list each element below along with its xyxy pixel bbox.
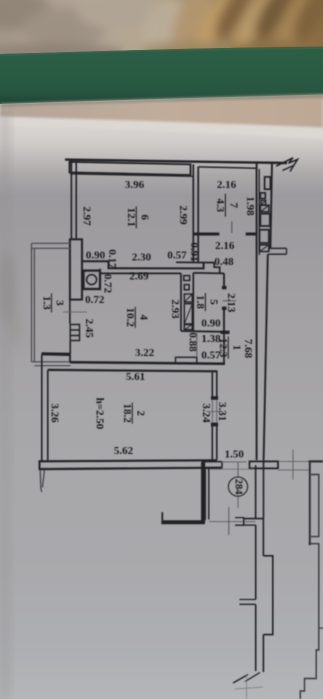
room label 5/1.8 xyxy=(194,293,219,311)
neighbour apartment outline right xyxy=(309,460,323,462)
room label 2/18.2 xyxy=(121,403,146,424)
svg-text:7: 7 xyxy=(227,202,239,208)
svg-text:2.93: 2.93 xyxy=(169,299,181,319)
wall room5 right with door xyxy=(223,273,225,331)
wall room4 left lower xyxy=(69,341,71,354)
wall room4-balcony xyxy=(69,300,71,324)
green band top highlight xyxy=(0,47,323,57)
balcony room3 outer walls xyxy=(32,244,35,363)
window balcony ladder xyxy=(70,324,79,341)
svg-text:2.99: 2.99 xyxy=(177,205,189,225)
axis cross right of entrance xyxy=(292,450,294,480)
svg-text:1.98: 1.98 xyxy=(244,196,256,216)
tick room5 door xyxy=(223,300,237,302)
svg-text:1: 1 xyxy=(230,345,242,351)
room label 1/12.3 xyxy=(217,337,242,359)
pier jut above room2 xyxy=(176,357,197,363)
shaft inner left line xyxy=(258,169,260,255)
vent rect A2 xyxy=(260,193,265,199)
vent square with circle room4 corner xyxy=(84,271,101,289)
wall room6 inner top face xyxy=(70,174,193,177)
svg-text:2.13: 2.13 xyxy=(225,293,237,313)
door jambs room5 xyxy=(222,286,227,289)
svg-text:0.90: 0.90 xyxy=(201,317,221,329)
pencil stub below room2 corner xyxy=(40,470,44,493)
tick through jut xyxy=(196,333,198,358)
wall corridor left lower xyxy=(255,525,257,671)
svg-text:5: 5 xyxy=(207,299,219,305)
svg-text:3.24: 3.24 xyxy=(200,403,212,423)
wall room2 bottom band xyxy=(40,460,218,461)
svg-text:0.72: 0.72 xyxy=(85,294,105,306)
wall shaft outer right xyxy=(270,163,272,249)
svg-text:12.3: 12.3 xyxy=(217,338,229,358)
dim extension line 2.45 xyxy=(63,311,87,313)
wall top exterior rooms 6-7 xyxy=(65,160,287,163)
stairwell door thin line and tick xyxy=(209,521,256,523)
wall room4 top xyxy=(100,272,181,274)
faint lines below break xyxy=(235,674,263,699)
svg-text:2.69: 2.69 xyxy=(129,270,149,282)
vent rect B2 xyxy=(184,285,189,290)
dim line 1.50 xyxy=(210,468,255,470)
svg-text:6: 6 xyxy=(138,215,150,221)
paper top edge highlight xyxy=(0,117,323,140)
wall corridor right leaning xyxy=(264,254,268,460)
top wall/table blurred tan area xyxy=(0,0,323,62)
wall stub right to stairwell xyxy=(268,248,287,254)
door jamb piece xyxy=(235,518,244,526)
vent rect B1 xyxy=(184,276,190,281)
left stub doorway in corridor xyxy=(239,600,255,605)
FLOOR PLAN xyxy=(32,158,323,699)
wall room7 bottom with door gap xyxy=(194,233,219,236)
wall corridor shoulder xyxy=(244,518,264,520)
wall room2 top face xyxy=(48,370,217,371)
svg-text:0.72: 0.72 xyxy=(101,274,113,294)
tan strip below green xyxy=(0,94,323,139)
svg-text:10.2: 10.2 xyxy=(124,308,136,328)
svg-text:5.61: 5.61 xyxy=(126,371,145,383)
room label 3/1.3 xyxy=(40,293,65,312)
vent rect A1 xyxy=(265,177,271,189)
svg-text:3.22: 3.22 xyxy=(135,347,155,359)
pencil smudge left margin xyxy=(0,252,22,350)
wall pier left below room6 xyxy=(70,239,82,299)
wall room2 right with door gap xyxy=(212,371,217,399)
svg-text:3: 3 xyxy=(54,300,66,306)
svg-text:18.2: 18.2 xyxy=(121,403,133,423)
wall corridor1 left upper xyxy=(223,332,225,364)
svg-text:4.3: 4.3 xyxy=(214,198,226,212)
svg-text:12.1: 12.1 xyxy=(125,208,137,227)
svg-text:0.91: 0.91 xyxy=(188,242,200,261)
svg-text:0.57: 0.57 xyxy=(167,250,187,262)
entrance door thin line and tick xyxy=(221,461,246,463)
vent rect B5 hatched xyxy=(184,325,192,330)
vent column between room4 and room5 xyxy=(181,273,193,331)
door jamb marks room2 xyxy=(211,396,218,400)
wall room5 top xyxy=(193,272,224,275)
svg-text:7.68: 7.68 xyxy=(242,339,254,359)
door threshold thin lines room2 xyxy=(212,400,216,423)
wall room7 inner top xyxy=(199,167,257,168)
svg-text:2.30: 2.30 xyxy=(132,251,152,263)
vent rect B4 hatched tall xyxy=(184,304,192,324)
vent rect A6 xyxy=(260,230,269,243)
svg-text:3.26: 3.26 xyxy=(48,403,60,423)
svg-text:0.48: 0.48 xyxy=(214,256,234,268)
wall room7 right / shaft left line xyxy=(256,163,258,460)
svg-text:0.17: 0.17 xyxy=(106,249,118,269)
vent rect B3 hatched xyxy=(184,294,192,302)
svg-text:1.8: 1.8 xyxy=(194,295,206,309)
svg-text:h=2.50: h=2.50 xyxy=(93,398,105,430)
tick room7 door xyxy=(231,222,233,234)
wall corridor stem upper xyxy=(255,465,257,518)
stairwell wall left bottom L xyxy=(202,461,205,523)
svg-text:3.96: 3.96 xyxy=(125,179,145,191)
wall room4 bottom / room2 top thick xyxy=(42,352,71,356)
wall entrance left segment xyxy=(205,462,223,469)
wall entrance right segment xyxy=(250,461,279,468)
room label 6/12.1 xyxy=(125,206,150,228)
svg-text:2.16: 2.16 xyxy=(217,179,237,191)
circle apartment number 284 xyxy=(228,477,247,496)
vent rect A3 xyxy=(261,201,266,205)
vent rect A5 xyxy=(260,214,270,226)
svg-text:284: 284 xyxy=(233,479,244,496)
room label 4/10.2 xyxy=(124,307,149,328)
wall room2 left xyxy=(42,355,48,462)
svg-text:1.3: 1.3 xyxy=(40,296,52,310)
wall corridor right lower with bump xyxy=(262,519,264,556)
svg-text:2: 2 xyxy=(134,410,146,416)
wall room6 bottom with step xyxy=(82,261,204,268)
wall left exterior room 6 xyxy=(71,160,76,239)
break symbol bottom corridor xyxy=(233,673,260,684)
svg-text:0.90: 0.90 xyxy=(86,250,106,262)
svg-text:5.62: 5.62 xyxy=(114,445,134,457)
left paper edge shade xyxy=(0,110,10,699)
vent rect A4 hatched xyxy=(260,205,269,212)
window room 6 xyxy=(70,162,191,175)
wall room6-room7 divider xyxy=(193,164,198,262)
vent rect A7 hatched xyxy=(260,245,269,252)
svg-text:2.97: 2.97 xyxy=(80,206,92,226)
wall break symbol top right xyxy=(276,158,298,172)
svg-text:2.45: 2.45 xyxy=(83,319,95,339)
green shelf edge band xyxy=(0,47,323,105)
wall room5 bottom xyxy=(181,330,224,333)
svg-text:1.50: 1.50 xyxy=(225,449,245,461)
svg-text:2.16: 2.16 xyxy=(215,240,235,252)
room label 7/4.3 xyxy=(214,194,239,217)
svg-text:0.88: 0.88 xyxy=(186,332,198,352)
svg-text:3.31: 3.31 xyxy=(216,402,228,421)
svg-text:4: 4 xyxy=(137,315,149,321)
